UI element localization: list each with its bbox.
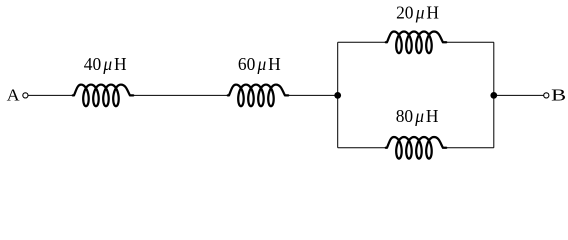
svg-text:20μH: 20μH: [396, 3, 439, 23]
svg-text:B: B: [551, 86, 566, 105]
svg-text:A: A: [7, 85, 21, 104]
svg-text:40μH: 40μH: [84, 54, 127, 74]
svg-text:80μH: 80μH: [396, 106, 439, 126]
svg-text:60μH: 60μH: [238, 54, 281, 74]
